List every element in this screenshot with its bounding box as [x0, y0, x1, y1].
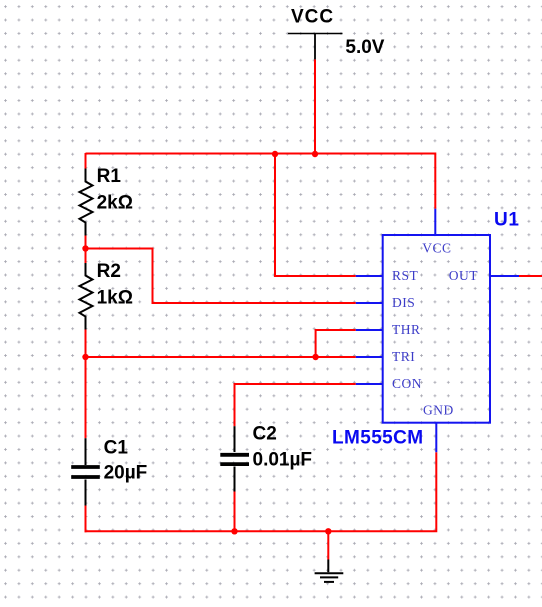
svg-text:LM555CM: LM555CM — [332, 428, 423, 449]
svg-text:CON: CON — [392, 376, 422, 391]
svg-text:20µF: 20µF — [104, 463, 148, 484]
svg-text:GND: GND — [423, 403, 454, 418]
svg-text:DIS: DIS — [392, 295, 415, 310]
svg-text:1kΩ: 1kΩ — [97, 288, 133, 309]
svg-text:R1: R1 — [97, 166, 122, 187]
svg-text:VCC: VCC — [291, 7, 334, 28]
svg-text:OUT: OUT — [449, 268, 478, 283]
svg-text:5.0V: 5.0V — [345, 37, 384, 58]
svg-text:C2: C2 — [253, 424, 277, 445]
svg-text:U1: U1 — [494, 210, 520, 231]
svg-text:R2: R2 — [97, 261, 121, 282]
svg-text:RST: RST — [392, 268, 419, 283]
svg-text:VCC: VCC — [422, 241, 451, 256]
svg-text:TRI: TRI — [392, 349, 415, 364]
svg-text:THR: THR — [392, 322, 421, 337]
svg-text:0.01µF: 0.01µF — [253, 449, 313, 470]
svg-text:2kΩ: 2kΩ — [97, 193, 133, 214]
svg-text:C1: C1 — [104, 438, 129, 459]
